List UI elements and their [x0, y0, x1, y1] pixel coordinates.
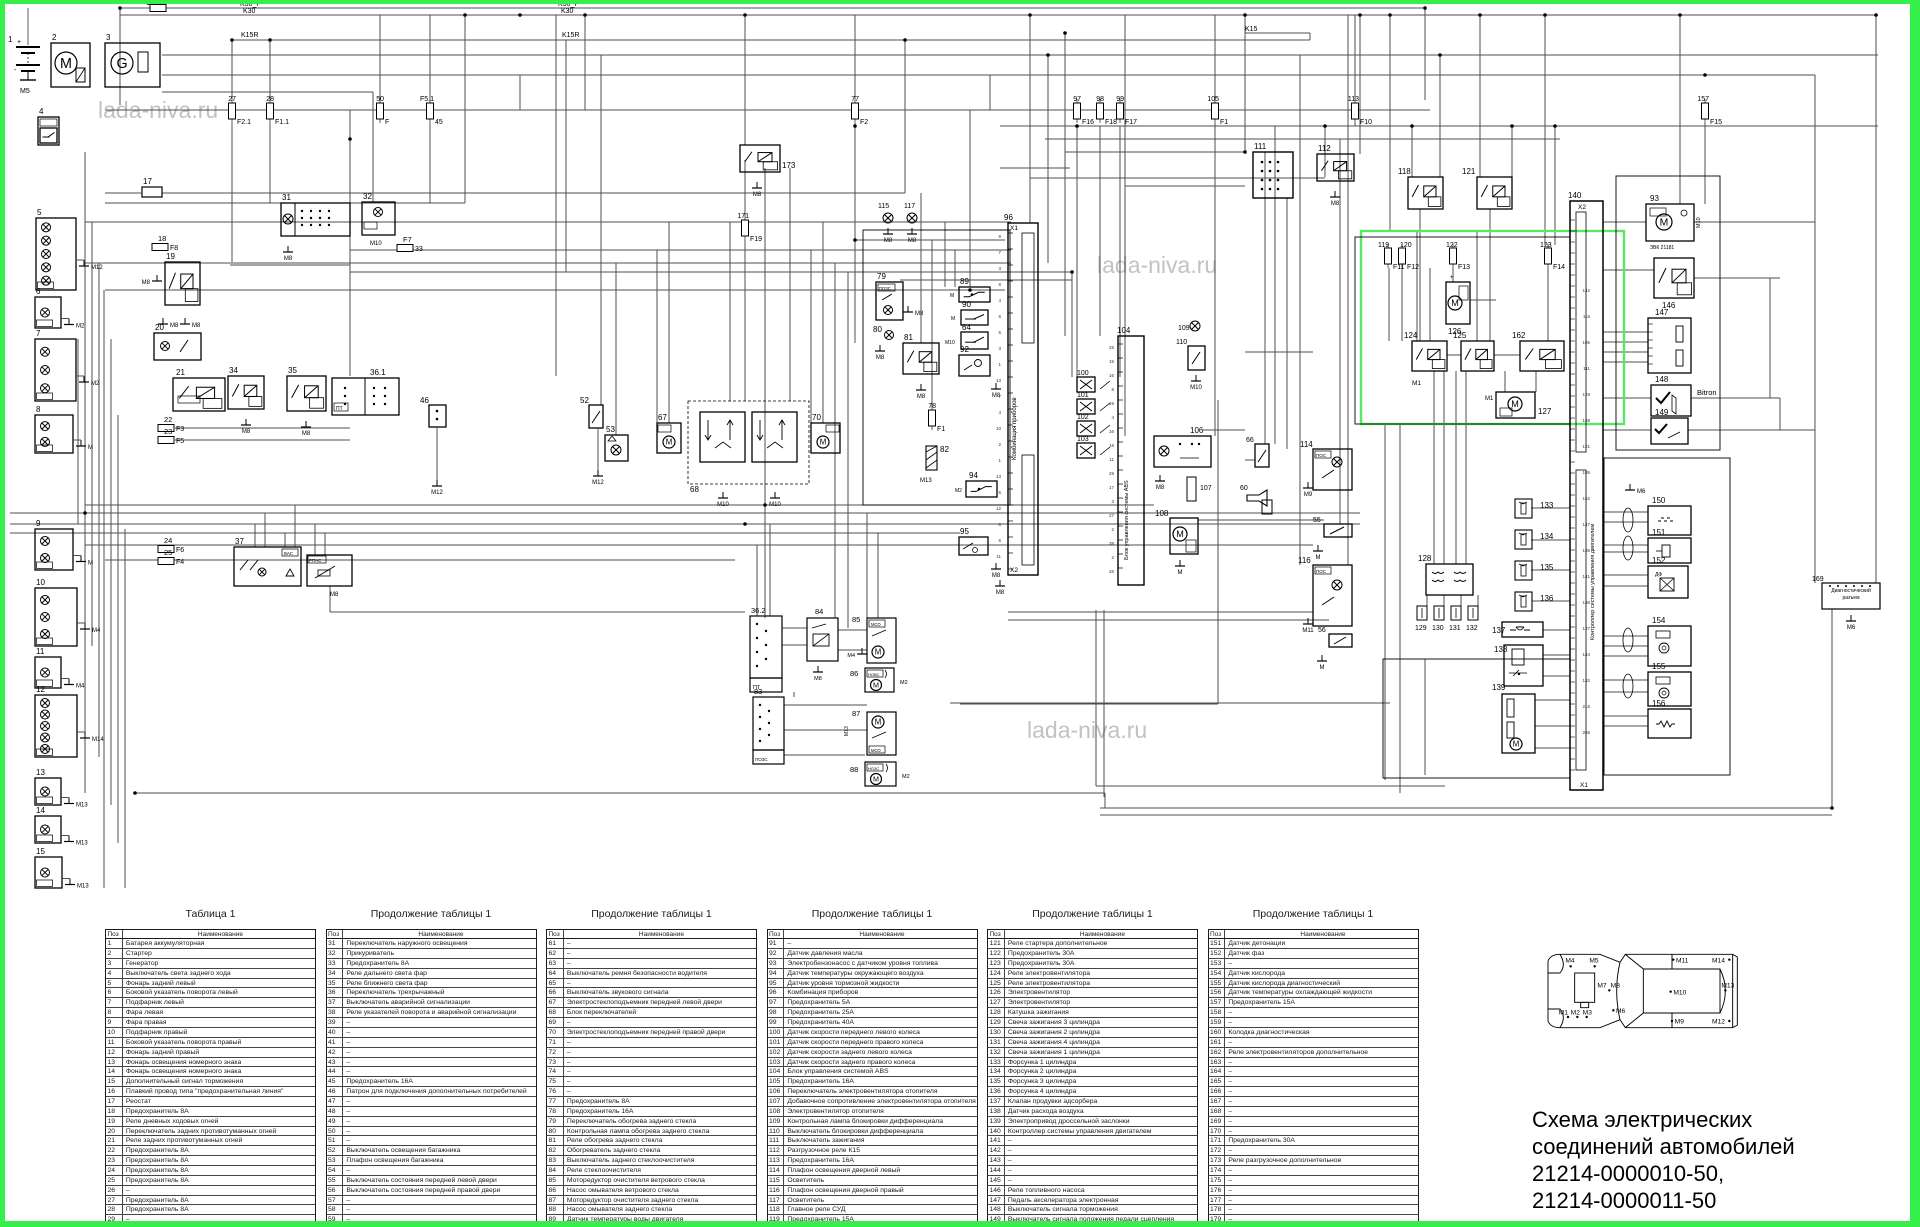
svg-text:27: 27 — [228, 96, 236, 103]
svg-text:8: 8 — [1111, 387, 1114, 392]
svg-text:M14: M14 — [1712, 957, 1725, 964]
fan relay 124 — [1404, 331, 1447, 387]
svg-text:M8: M8 — [284, 256, 293, 262]
svg-text:M8: M8 — [884, 238, 893, 244]
horn switch 66 — [1246, 437, 1269, 467]
svg-text:ПОЗС: ПОЗС — [879, 286, 891, 291]
svg-text:5: 5 — [37, 208, 42, 217]
relay 121 — [1462, 167, 1512, 209]
svg-text:M12: M12 — [592, 480, 604, 486]
svg-text:8: 8 — [998, 282, 1001, 287]
svg-text:М2: М2 — [900, 680, 908, 686]
svg-text:99: 99 — [1116, 96, 1124, 103]
svg-text:M2: M2 — [1571, 1009, 1581, 1016]
rear window heat relay 81 — [903, 333, 939, 400]
svg-text:X1: X1 — [1580, 782, 1588, 789]
svg-text:K30: K30 — [561, 8, 574, 15]
fuse 123 F14 — [1540, 242, 1565, 271]
svg-text:85: 85 — [852, 615, 860, 624]
svg-text:M10: M10 — [945, 340, 955, 346]
svg-text:+: + — [17, 39, 21, 46]
svg-text:127: 127 — [1538, 407, 1552, 416]
svg-text:M12: M12 — [91, 265, 103, 271]
svg-text:24: 24 — [164, 536, 172, 545]
svg-text:22: 22 — [164, 415, 172, 424]
svg-text:152: 152 — [1652, 556, 1666, 565]
svg-text:105: 105 — [1582, 470, 1590, 475]
illumination lamp 117 — [904, 203, 917, 244]
horn 60 — [1240, 485, 1272, 514]
svg-text:6: 6 — [998, 314, 1001, 319]
svg-text:F1: F1 — [937, 426, 945, 433]
svg-text:F10: F10 — [1360, 119, 1372, 126]
svg-text:Контроллер системы управления: Контроллер системы управления двигателем — [1590, 524, 1596, 640]
svg-text:2: 2 — [998, 442, 1001, 447]
svg-text:Bitron: Bitron — [1697, 388, 1717, 397]
svg-text:МСО: МСО — [871, 748, 881, 753]
rear fog light relay 21 — [173, 368, 225, 411]
svg-text:9: 9 — [998, 234, 1001, 239]
brake signal switch 148 — [1651, 375, 1717, 416]
svg-text:M4: M4 — [1565, 957, 1575, 964]
spark plug 129 — [1415, 606, 1427, 632]
svg-text:M: M — [1660, 218, 1669, 229]
luggage light switch 52 — [580, 396, 603, 428]
instrument cluster 96 (Комбинация приборов) — [995, 213, 1038, 596]
svg-text:144: 144 — [1582, 652, 1590, 657]
fuel pump relay 146 — [1654, 258, 1694, 310]
svg-text:ПОС: ПОС — [1316, 453, 1327, 458]
fuse 28 F1.1 — [266, 96, 289, 126]
svg-text:М: М — [875, 718, 882, 727]
svg-text:НОВС: НОВС — [868, 672, 880, 677]
door lamp right 116 — [1298, 556, 1352, 634]
svg-text:87: 87 — [852, 709, 860, 718]
indicator lamp 109 — [1178, 321, 1200, 332]
svg-text:K15R: K15R — [562, 32, 580, 39]
svg-text:M1: M1 — [1559, 1009, 1569, 1016]
svg-text:123: 123 — [1540, 242, 1552, 249]
svg-text:88: 88 — [850, 765, 858, 774]
svg-text:5: 5 — [998, 330, 1001, 335]
svg-text:55: 55 — [1313, 517, 1321, 524]
rear lamp left 5 — [36, 208, 103, 290]
svg-text:X1: X1 — [1010, 225, 1018, 232]
windscreen washer pump 86 — [850, 668, 908, 692]
injector 134 — [1515, 530, 1554, 549]
luggage lamp 53 — [592, 425, 628, 486]
fuse 23 F5 — [158, 427, 184, 445]
svg-text:Комбинация приборов: Комбинация приборов — [1012, 397, 1018, 460]
svg-text:M: M — [666, 438, 673, 447]
enclosure around sensors group — [863, 230, 1010, 505]
svg-text:M8: M8 — [917, 394, 926, 400]
watermark lada-niva.ru top-left — [98, 97, 218, 124]
svg-text:147: 147 — [1582, 522, 1590, 527]
svg-text:36.2: 36.2 — [751, 606, 766, 615]
rheostat 17 — [135, 177, 162, 197]
svg-text:17: 17 — [1109, 485, 1115, 490]
svg-text:15: 15 — [36, 847, 45, 856]
svg-text:77: 77 — [851, 96, 859, 103]
svg-text:М: М — [875, 648, 882, 657]
illumination lamp 115 — [878, 203, 893, 244]
engine control unit 140 (ECU) — [1568, 191, 1603, 790]
brake fluid level sensor 92 — [959, 345, 1001, 399]
svg-text:F1.1: F1.1 — [275, 119, 289, 126]
windscreen wiper motor 85 — [847, 615, 896, 663]
svg-text:ПТ: ПТ — [336, 406, 343, 412]
generator 3 (G) — [105, 33, 160, 87]
fuse F1 78 — [928, 403, 945, 433]
svg-text:131: 131 — [1449, 625, 1461, 632]
svg-text:M7: M7 — [1597, 983, 1607, 990]
green page border top — [0, 0, 1920, 4]
low beam relay 35 — [287, 366, 326, 437]
svg-text:M: M — [820, 438, 827, 447]
svg-text:3: 3 — [998, 346, 1001, 351]
svg-text:90: 90 — [962, 300, 971, 309]
enclosure around ECU accessories — [1616, 176, 1720, 450]
svg-text:6: 6 — [998, 538, 1001, 543]
fuse 50 — [376, 96, 389, 126]
svg-text:81: 81 — [904, 333, 913, 342]
svg-text:117: 117 — [904, 203, 915, 210]
svg-text:1: 1 — [998, 362, 1001, 367]
svg-text:-: - — [14, 67, 17, 74]
svg-text:M9: M9 — [1675, 1019, 1685, 1026]
svg-text:F18: F18 — [1105, 119, 1117, 126]
headlamp left 8 — [35, 405, 93, 453]
exterior light switch 31 — [281, 193, 350, 262]
svg-text:M5: M5 — [1589, 957, 1599, 964]
phase sensor 151 — [1648, 528, 1691, 563]
svg-text:M: M — [1513, 740, 1520, 749]
svg-text:45: 45 — [435, 119, 443, 126]
svg-text:103: 103 — [1077, 436, 1089, 443]
svg-text:4: 4 — [998, 298, 1001, 303]
svg-text:M8: M8 — [1156, 485, 1165, 491]
svg-text:129: 129 — [1582, 392, 1590, 397]
svg-text:13: 13 — [996, 474, 1002, 479]
svg-text:F19: F19 — [750, 236, 762, 243]
svg-text:37: 37 — [235, 537, 244, 546]
cluster 96 pin numbers — [996, 234, 1002, 559]
svg-text:112: 112 — [1318, 144, 1331, 153]
fuse 27 F2.1 — [228, 96, 251, 126]
side turn indicator left 6 — [35, 287, 85, 330]
svg-text:116: 116 — [1583, 314, 1591, 319]
side turn indicator right 11 — [35, 647, 85, 690]
svg-text:M1: M1 — [1412, 380, 1421, 387]
svg-text:124: 124 — [1404, 331, 1418, 340]
svg-text:17: 17 — [143, 177, 152, 186]
svg-text:ДФ: ДФ — [1655, 572, 1662, 578]
svg-text:М: М — [873, 775, 879, 783]
svg-text:96: 96 — [1004, 213, 1013, 222]
svg-text:34: 34 — [229, 366, 238, 375]
door switch 55 — [1313, 517, 1352, 561]
oil pressure sensor 89 — [950, 277, 990, 302]
heater element 82 — [920, 445, 949, 484]
coolant temp sensor 156 — [1648, 699, 1691, 738]
door switch 56 — [1317, 627, 1352, 671]
svg-text:155: 155 — [1652, 662, 1666, 671]
svg-text:F13: F13 — [1458, 264, 1470, 271]
svg-text:115: 115 — [878, 203, 889, 210]
svg-text:1: 1 — [8, 35, 13, 44]
svg-text:128: 128 — [1418, 554, 1432, 563]
K15 relief relay 112 — [1317, 144, 1354, 207]
svg-text:138: 138 — [1582, 418, 1590, 423]
svg-text:5: 5 — [998, 490, 1001, 495]
svg-text:M: M — [88, 445, 93, 451]
watermark lada-niva.ru lower-middle — [1027, 717, 1147, 744]
svg-text:135: 135 — [1582, 548, 1590, 553]
svg-text:25: 25 — [164, 548, 172, 557]
svg-text:+: + — [1450, 275, 1454, 281]
svg-text:М2: М2 — [902, 774, 910, 780]
svg-text:27: 27 — [1109, 513, 1115, 518]
svg-text:M8: M8 — [302, 431, 311, 437]
svg-text:М4: М4 — [847, 653, 855, 659]
green page border bottom — [0, 1221, 1920, 1227]
svg-text:M8: M8 — [330, 592, 339, 598]
svg-text:84: 84 — [815, 607, 823, 616]
svg-text:M8: M8 — [242, 429, 251, 435]
svg-text:13: 13 — [36, 768, 45, 777]
wheel speed sensor 100 — [1077, 370, 1110, 392]
svg-text:86: 86 — [850, 669, 858, 678]
svg-text:М8: М8 — [814, 676, 822, 682]
svg-text:X2: X2 — [1010, 567, 1018, 574]
svg-text:M6: M6 — [1616, 1008, 1626, 1015]
air flow sensor 138 — [1494, 645, 1543, 686]
svg-text:3: 3 — [106, 33, 111, 42]
svg-text:M12: M12 — [1712, 1019, 1725, 1026]
connector 46 — [420, 396, 446, 496]
svg-text:105: 105 — [1207, 96, 1219, 103]
svg-text:64: 64 — [962, 323, 971, 332]
green highlight box (fan control group) — [1361, 231, 1624, 424]
hazard switch 37 — [234, 537, 301, 586]
svg-text:M3: M3 — [1583, 1009, 1593, 1016]
svg-text:M13: M13 — [1721, 983, 1734, 990]
svg-text:138: 138 — [1494, 645, 1508, 654]
knock sensor 150 — [1648, 496, 1691, 535]
svg-text:F2: F2 — [860, 119, 868, 126]
fuse 119 F11 — [1378, 242, 1405, 271]
svg-text:154: 154 — [1652, 616, 1666, 625]
rear wiper control switch 83 — [753, 687, 784, 764]
svg-text:ВАС: ВАС — [284, 551, 294, 556]
svg-text:4: 4 — [39, 107, 44, 116]
door lamp left 114 — [1300, 440, 1352, 498]
rear wiper switch 36.2 — [750, 606, 782, 692]
svg-text:F: F — [385, 119, 389, 126]
svg-text:M4: M4 — [76, 684, 85, 690]
heater resistor 107 — [1187, 477, 1212, 501]
svg-text:162: 162 — [1512, 331, 1526, 340]
svg-text:M10: M10 — [1190, 385, 1202, 391]
svg-text:104: 104 — [1117, 326, 1131, 335]
svg-text:133: 133 — [1540, 501, 1554, 510]
svg-text:М8: М8 — [753, 192, 762, 198]
svg-text:4: 4 — [998, 410, 1001, 415]
svg-text:150: 150 — [1652, 496, 1666, 505]
svg-text:M2: M2 — [76, 324, 85, 330]
svg-text:114: 114 — [1300, 440, 1313, 449]
fuse 120 F12 — [1399, 242, 1420, 271]
svg-text:116: 116 — [1298, 556, 1311, 565]
svg-text:89: 89 — [960, 277, 969, 286]
svg-text:F7: F7 — [403, 235, 412, 244]
svg-text:K30: K30 — [243, 8, 256, 15]
fuse 22 F3 — [158, 415, 184, 433]
daytime running light relay 19 — [142, 252, 200, 305]
svg-text:101: 101 — [1077, 392, 1089, 399]
svg-text:132: 132 — [1466, 625, 1478, 632]
svg-text:M8: M8 — [992, 573, 1001, 579]
high stop lamp 15 — [35, 847, 89, 890]
svg-text:M11: M11 — [1676, 957, 1689, 964]
clutch pedal switch 149 — [1651, 408, 1688, 444]
twisted pair symbols — [1623, 508, 1633, 698]
svg-text:1: 1 — [998, 458, 1001, 463]
svg-text:60: 60 — [1240, 485, 1248, 492]
svg-text:12: 12 — [36, 685, 45, 694]
svg-text:121: 121 — [1462, 167, 1476, 176]
svg-text:127: 127 — [1582, 626, 1590, 631]
fuse 18 F8 — [152, 234, 178, 252]
svg-text:16: 16 — [1109, 429, 1115, 434]
svg-text:M: M — [88, 561, 93, 567]
fuse 97 F16 — [1073, 96, 1094, 126]
svg-text:МСО: МСО — [871, 622, 881, 627]
svg-text:M1: M1 — [1485, 396, 1494, 402]
reverse light switch 4 — [38, 107, 59, 145]
air temp sensor 94 — [955, 471, 997, 497]
enclosure fan zone — [1355, 237, 1570, 424]
svg-text:F8: F8 — [170, 245, 178, 252]
svg-text:110: 110 — [1176, 339, 1187, 346]
svg-text:Блок управления системы ABS: Блок управления системы ABS — [1124, 480, 1130, 560]
svg-text:М6: М6 — [1847, 625, 1856, 631]
svg-text:19: 19 — [166, 252, 175, 261]
svg-text:НОЗС: НОЗС — [868, 766, 879, 771]
svg-text:80: 80 — [873, 325, 882, 334]
wheel speed sensor 103 — [1077, 436, 1110, 458]
svg-text:M: M — [1320, 665, 1325, 671]
fuse 122 F13 — [1446, 242, 1470, 271]
svg-text:136: 136 — [1582, 600, 1590, 605]
fan motor 127 — [1485, 392, 1552, 418]
spark plug 130 — [1432, 606, 1444, 632]
rear wiper motor 87 — [844, 709, 896, 755]
svg-text:215: 215 — [1582, 704, 1590, 709]
diagnostic connector 169 — [1812, 576, 1880, 631]
svg-text:106: 106 — [1582, 340, 1590, 345]
svg-text:113: 113 — [1348, 96, 1359, 103]
svg-text:M10: M10 — [370, 241, 382, 247]
svg-text:26: 26 — [1109, 569, 1115, 574]
fan relay 125 — [1453, 331, 1494, 371]
svg-text:F5: F5 — [176, 438, 184, 445]
svg-text:K15R: K15R — [241, 32, 259, 39]
svg-text:2: 2 — [1111, 527, 1114, 532]
svg-text:93: 93 — [1650, 194, 1659, 203]
svg-text:147: 147 — [1655, 308, 1669, 317]
svg-text:M4: M4 — [92, 628, 101, 634]
svg-text:118: 118 — [1398, 167, 1411, 176]
svg-text:56: 56 — [1318, 627, 1326, 634]
watermark lada-niva.ru middle — [1097, 252, 1217, 279]
svg-text:M8: M8 — [170, 323, 179, 329]
diagnostic oxygen sensor 155 — [1648, 662, 1691, 706]
svg-text:M12: M12 — [431, 490, 443, 496]
spark plug 131 — [1449, 606, 1461, 632]
ABS control unit 104 — [1117, 326, 1144, 585]
green page border right — [1910, 0, 1920, 1227]
front parking lamp right 10 — [35, 578, 101, 646]
svg-text:M8: M8 — [192, 323, 201, 329]
svg-text:23: 23 — [164, 427, 172, 436]
svg-text:M: M — [1176, 529, 1184, 539]
svg-text:7: 7 — [36, 329, 41, 338]
svg-text:M: M — [1451, 298, 1459, 308]
fuse 25 F4 — [158, 548, 184, 566]
svg-text:32: 32 — [363, 192, 372, 201]
enclosure around engine sensors — [1604, 458, 1730, 775]
svg-text:142: 142 — [1582, 288, 1590, 293]
fuse 171 F19 — [737, 213, 762, 243]
diff lock switch 95 — [959, 527, 1001, 579]
svg-text:121: 121 — [1582, 444, 1590, 449]
purge valve 137 — [1492, 622, 1543, 637]
svg-text:156: 156 — [1652, 699, 1666, 708]
svg-text:K15: K15 — [1245, 26, 1258, 33]
svg-text:173: 173 — [782, 161, 796, 170]
svg-text:134: 134 — [1540, 532, 1554, 541]
svg-text:141: 141 — [1582, 574, 1590, 579]
svg-text:46: 46 — [420, 396, 429, 405]
fuse 113 F10 — [1348, 96, 1372, 126]
svg-text:ПОС: ПОС — [1316, 569, 1327, 574]
licence plate lamp 14 — [35, 806, 88, 847]
fuse 77 F2 — [851, 96, 868, 126]
svg-text:120: 120 — [1400, 242, 1412, 249]
svg-text:ПОЗС: ПОЗС — [755, 757, 768, 762]
svg-text:M: M — [951, 316, 955, 322]
svg-text:M6: M6 — [1637, 489, 1646, 495]
fuse 33 F7 — [397, 235, 423, 253]
svg-text:M2: M2 — [955, 488, 962, 494]
svg-text:M: M — [950, 293, 954, 299]
wiper relay 84 — [807, 607, 838, 682]
svg-text:98: 98 — [1096, 96, 1104, 103]
ABS 104 pin numbers — [1109, 345, 1115, 574]
svg-text:F4: F4 — [176, 559, 184, 566]
wheel speed sensor 101 — [1077, 392, 1110, 414]
svg-text:M13: M13 — [76, 803, 88, 809]
svg-text:M2: M2 — [91, 381, 100, 387]
starter 2 (motor M) — [51, 33, 90, 87]
svg-text:97: 97 — [1073, 96, 1081, 103]
svg-text:111: 111 — [1254, 142, 1267, 151]
licence plate lamp 13 — [35, 768, 88, 809]
svg-text:83: 83 — [754, 687, 762, 696]
svg-text:F2.1: F2.1 — [237, 119, 251, 126]
